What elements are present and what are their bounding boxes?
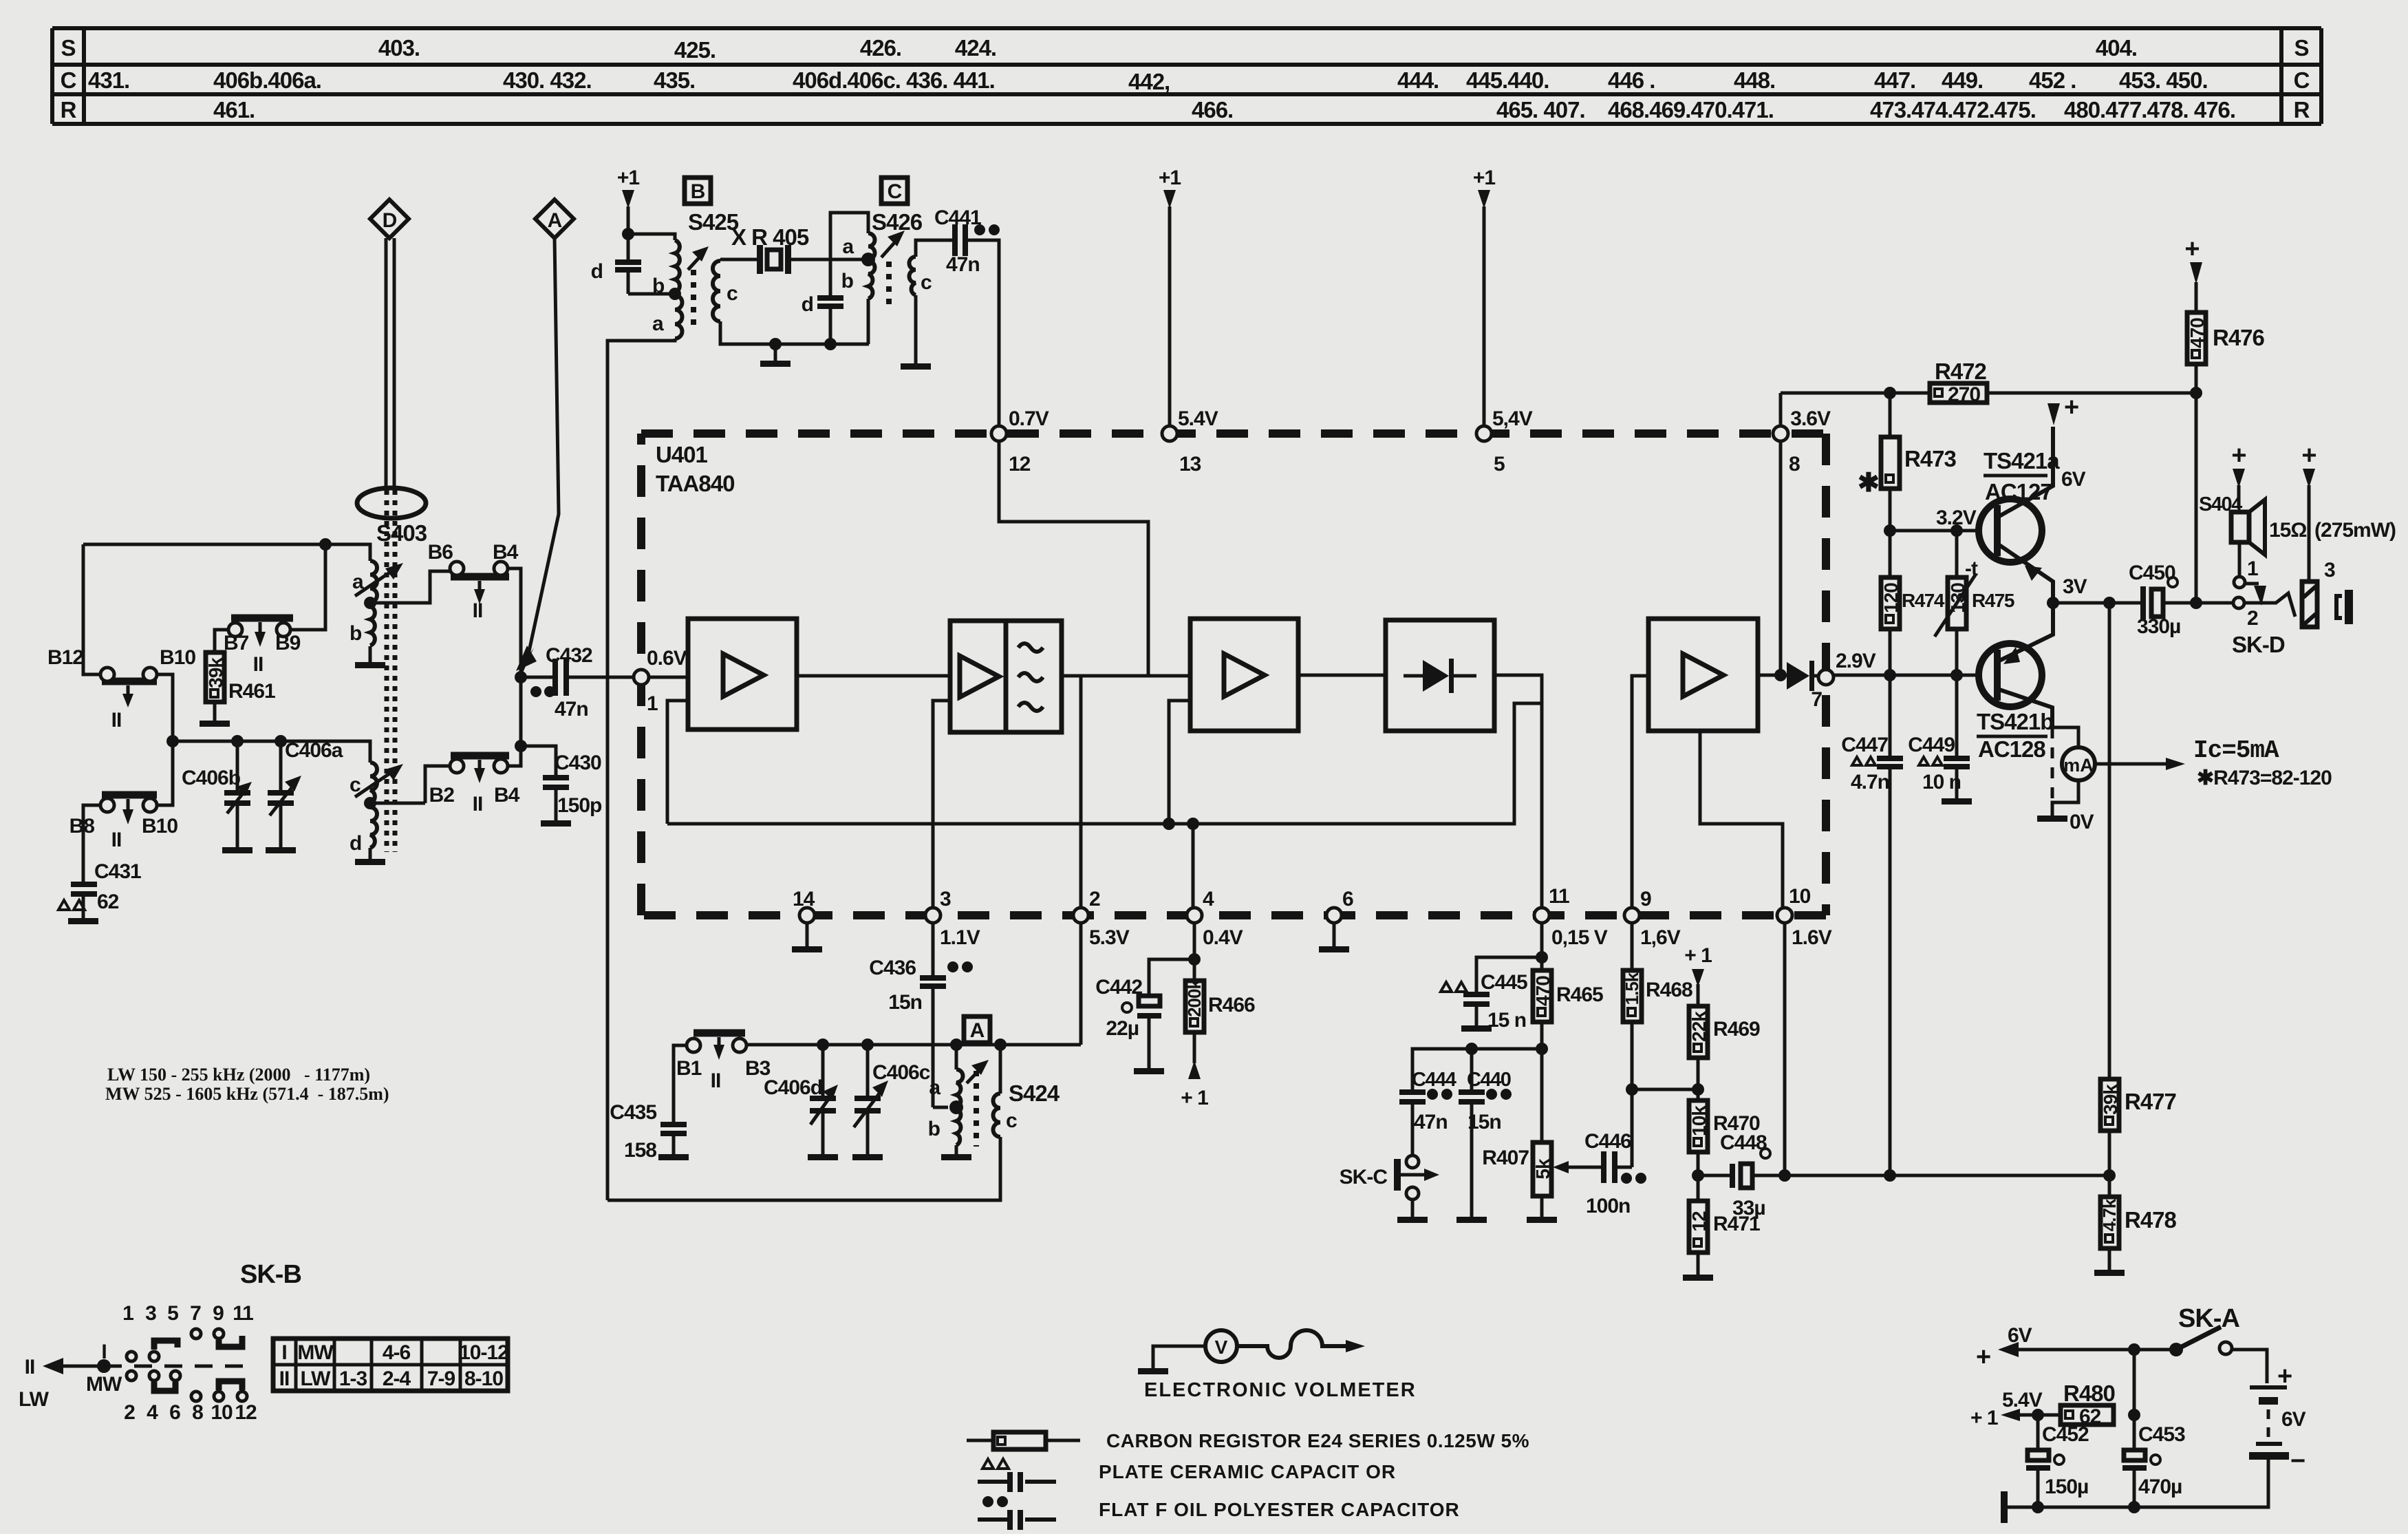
- resistor R469 22k: [1688, 1006, 1760, 1058]
- node: S424 a/b tap: [949, 1100, 963, 1114]
- svg-text:200k: 200k: [1184, 979, 1205, 1017]
- svg-text:+: +: [2184, 235, 2199, 264]
- svg-text:MW 525 - 1605 kHz (571.4 - 1: MW 525 - 1605 kHz (571.4 - 187.5m): [105, 1084, 389, 1104]
- svg-text:C406b: C406b: [182, 767, 241, 789]
- wire: C436 bottom to S424 tap: [933, 1106, 948, 1109]
- capacitor C449 10n (plate ceramic): [1908, 675, 1970, 798]
- pin 4 of U401: [1187, 888, 1243, 949]
- table row label S (right): [2294, 35, 2308, 61]
- pin 11 of U401: [1534, 885, 1608, 949]
- legend: carbon resistor symbol: [967, 1430, 1529, 1451]
- wire: S424 c bottom loop to left vertical: [608, 1137, 1000, 1200]
- amplifier block 5 (AF preamp): [1648, 619, 1758, 731]
- wire: pin4 external stub: [1193, 923, 1196, 981]
- svg-text:2: 2: [1089, 888, 1100, 910]
- trimmer capacitor d (S425): [591, 234, 641, 294]
- svg-text:15n: 15n: [888, 991, 922, 1014]
- wire: output line 3V node to C450: [2053, 575, 2140, 603]
- wire: B12 to top bus: [83, 544, 100, 674]
- wire: S426 top loop: [830, 213, 868, 295]
- wire: junction to divider chain: [1632, 1088, 1698, 1091]
- variable capacitor C406c: [854, 1038, 930, 1127]
- wire: feedback line to R477/R478 junction: [1785, 1174, 2109, 1178]
- svg-text:C440: C440: [1467, 1069, 1511, 1091]
- note: band coverage text: [105, 1065, 389, 1104]
- svg-text:LW: LW: [19, 1388, 50, 1411]
- wire: R477 riser from output node: [2108, 603, 2111, 1079]
- svg-text:15Ω: 15Ω: [2269, 519, 2306, 542]
- svg-text:3: 3: [2324, 559, 2335, 582]
- svg-text:SK-C: SK-C: [1340, 1166, 1388, 1189]
- resistor R474 120: [1880, 531, 1945, 675]
- svg-text:C448: C448: [1720, 1131, 1767, 1154]
- ground: R471: [1683, 1253, 1713, 1281]
- svg-text:C430: C430: [555, 752, 601, 774]
- ground: TS421b emitter 0V: [2037, 811, 2094, 833]
- svg-text:C445: C445: [1481, 971, 1527, 994]
- ferrite core dotted columns S403: [387, 490, 395, 852]
- svg-text:CARBON REGISTOR E24 SERIES: CARBON REGISTOR E24 SERIES 0.125W 5%: [1106, 1430, 1529, 1451]
- svg-text:47n: 47n: [946, 253, 980, 276]
- switch B2/B4 lower: [429, 756, 520, 816]
- pin 3 of U401: [925, 888, 980, 949]
- svg-text:A: A: [548, 209, 562, 232]
- capacitor C444 47n (foil): [1399, 1069, 1456, 1133]
- wire: block2 output bus to block3 input: [1062, 674, 1190, 678]
- svg-text:-t: -t: [1965, 557, 1978, 580]
- svg-text:4-6: 4-6: [383, 1341, 411, 1364]
- wire: S425 c bottom to common ground rail: [720, 321, 869, 344]
- wire: S425 winding a bottom to long left vertical: [608, 339, 675, 1200]
- svg-text:R480: R480: [2063, 1381, 2115, 1406]
- node: feedback rail / pin4 riser: [1187, 818, 1199, 830]
- adjustable core arrow S424: [967, 1060, 989, 1083]
- svg-text:480.477.478. 476.: 480.477.478. 476.: [2064, 97, 2235, 122]
- ground: S426 winding c: [901, 295, 931, 370]
- node: S403 a/b tap: [364, 597, 376, 609]
- ground: pin 14 stub: [792, 924, 822, 952]
- coil S425 winding b: [652, 240, 680, 297]
- coil S403 winding a: [352, 561, 377, 602]
- svg-text:425.: 425.: [674, 37, 716, 63]
- svg-text:0V: 0V: [2070, 811, 2094, 833]
- svg-text:b: b: [928, 1118, 940, 1140]
- svg-text:d: d: [350, 832, 361, 855]
- variable capacitor C406b: [182, 767, 252, 813]
- svg-text:+: +: [1976, 1343, 1990, 1372]
- svg-text:LW 150 - 255 kHz (2000 - 1: LW 150 - 255 kHz (2000 - 1177m): [107, 1065, 370, 1085]
- svg-text:II: II: [711, 1069, 721, 1092]
- svg-text:39k: 39k: [2100, 1084, 2121, 1115]
- svg-text:S403: S403: [376, 520, 427, 546]
- svg-text:c: c: [1006, 1109, 1017, 1132]
- resistor R476 470: [2186, 312, 2265, 393]
- table row S entries: [378, 35, 2137, 63]
- node: 3.6V label at pin 8: [1790, 407, 1831, 430]
- svg-text:120: 120: [1880, 583, 1902, 613]
- switch B8/B10: [69, 795, 178, 851]
- svg-text:5.3V: 5.3V: [1089, 926, 1130, 949]
- svg-text:+: +: [2301, 441, 2316, 470]
- electronic voltmeter symbol: [1138, 1330, 1417, 1401]
- svg-text:452 .: 452 .: [2029, 67, 2076, 93]
- node: d bottom on ground rail: [824, 338, 837, 350]
- node: junction top bus / B9 riser: [319, 538, 332, 551]
- svg-text:406b.406a.: 406b.406a.: [213, 67, 321, 93]
- svg-text:470: 470: [1532, 976, 1554, 1006]
- capacitor C445 15n (plate ceramic): [1441, 957, 1542, 1032]
- svg-text:R474: R474: [1902, 590, 1945, 611]
- capacitor C442 22u (electrolytic): [1095, 959, 1194, 1068]
- wire: d bottom to S425 tap: [628, 292, 675, 296]
- svg-text:2: 2: [2247, 607, 2258, 630]
- wire: C441 to pin 12 riser: [968, 240, 999, 427]
- wire: R472 supply rail: [1781, 392, 2196, 395]
- svg-text:1.5k: 1.5k: [1622, 972, 1642, 1005]
- svg-text:447.: 447.: [1874, 67, 1915, 93]
- coil S425 winding c (secondary): [713, 261, 738, 321]
- ground: S403 winding b: [355, 646, 385, 668]
- svg-text:AC128: AC128: [1978, 736, 2045, 762]
- svg-text:B: B: [691, 180, 705, 203]
- svg-text:4.7n: 4.7n: [1851, 771, 1889, 793]
- svg-text:442,: 442,: [1128, 69, 1170, 94]
- wire: pin9 external riser: [1631, 923, 1634, 970]
- ground: R478: [2094, 1248, 2125, 1276]
- ground: S403 winding d: [355, 848, 385, 865]
- svg-text:II: II: [279, 1367, 290, 1390]
- svg-text:C: C: [2294, 67, 2310, 93]
- svg-text:R465: R465: [1556, 983, 1603, 1006]
- coil S426 winding b: [841, 261, 875, 299]
- svg-text:1.6V: 1.6V: [1792, 926, 1832, 949]
- svg-text:445.440.: 445.440.: [1466, 67, 1549, 93]
- svg-text:270: 270: [1948, 383, 1980, 406]
- ground: chassis bar (battery return): [2001, 1491, 2008, 1523]
- capacitor C450 330u (electrolytic): [2129, 562, 2233, 638]
- svg-text:II: II: [25, 1356, 35, 1378]
- svg-text:R473: R473: [1904, 446, 1957, 471]
- svg-text:a: a: [842, 235, 854, 258]
- node: S426 a/b tap (XR405 connection): [861, 253, 875, 266]
- svg-text:a: a: [929, 1076, 940, 1099]
- adjustable core arrow S425: [688, 246, 709, 270]
- svg-text:V: V: [1215, 1336, 1228, 1358]
- svg-text:mA: mA: [2063, 755, 2094, 776]
- svg-text:10 n: 10 n: [1922, 771, 1961, 793]
- switch SK-B position table: [273, 1339, 508, 1391]
- top reference table frame: [52, 28, 2321, 124]
- svg-text:47n: 47n: [1414, 1111, 1448, 1133]
- ground: R461: [200, 702, 230, 727]
- svg-text:C449: C449: [1908, 734, 1955, 756]
- ground: C440: [1456, 1217, 1487, 1223]
- arrow: meter reading note: [2096, 736, 2332, 789]
- switch SK-A: [2169, 1304, 2267, 1383]
- node: +1 / trimmer d junction: [622, 228, 634, 240]
- svg-text:6V: 6V: [2061, 468, 2086, 491]
- svg-text:S424: S424: [1009, 1080, 1060, 1106]
- resistor R480 62: [2038, 1381, 2115, 1428]
- svg-text:403.: 403.: [378, 35, 420, 61]
- jack SK-D contact 1: [2234, 557, 2266, 606]
- ferrite core dots S426: [886, 262, 892, 306]
- wire: pin1 to block1 input: [649, 676, 688, 679]
- wire: B2 to S403 c/d tap: [425, 766, 450, 803]
- svg-text:II: II: [473, 599, 483, 622]
- transformer S425 label: [688, 209, 739, 235]
- amplifier block 2 (IF amp + filter): [950, 621, 1062, 732]
- svg-text:R: R: [61, 97, 77, 122]
- svg-text:12: 12: [235, 1401, 257, 1424]
- node: feedback rail / block3 stub: [1163, 818, 1175, 830]
- coil S424 winding a: [929, 1038, 963, 1107]
- svg-text:100n: 100n: [1586, 1195, 1630, 1217]
- switch B12/B10: [47, 646, 195, 732]
- pin 14 of U401: [793, 888, 815, 923]
- amplifier block 1 (RF amp): [688, 619, 797, 729]
- wire: S403 a/b tap to B6: [370, 571, 451, 603]
- svg-text:b: b: [652, 275, 665, 297]
- transistor Q2 TS421b AC128: [1977, 603, 2053, 762]
- svg-text:446 .: 446 .: [1608, 67, 1655, 93]
- wire: S425 top loop: [628, 234, 675, 240]
- wire: feedback rail (AGC line): [667, 703, 1542, 824]
- resistor R477 39k: [2100, 1079, 2176, 1197]
- wire: block5 lower stub to pin10: [1700, 731, 1783, 908]
- wire: R465 bottom to volume bus: [1540, 1022, 1544, 1142]
- svg-text:II: II: [111, 829, 122, 851]
- svg-text:SK-B: SK-B: [240, 1260, 301, 1289]
- svg-text:C450: C450: [2129, 562, 2175, 584]
- pin 10 of U401: [1777, 885, 1832, 949]
- transformer S426 label: [872, 209, 923, 235]
- node: pin8 riser joins diode anode: [1774, 669, 1787, 681]
- coil S424 winding b: [928, 1109, 961, 1145]
- svg-text:MW: MW: [86, 1373, 122, 1396]
- svg-text:b: b: [841, 270, 854, 292]
- wire: B8 to C431: [83, 805, 100, 882]
- adjustable core arrow S426: [881, 231, 905, 257]
- svg-text:15 n: 15 n: [1487, 1009, 1526, 1032]
- svg-text:9: 9: [213, 1302, 224, 1325]
- wire: TS421a base line: [1890, 507, 1981, 531]
- trimmer capacitor d (S426): [802, 293, 843, 344]
- wire: pin12 feed into block3 input bus: [999, 441, 1148, 676]
- capacitor C447 4.7n (plate ceramic): [1841, 675, 1903, 1175]
- svg-text:444.: 444.: [1397, 67, 1439, 93]
- ground: C431: [68, 897, 98, 924]
- svg-text:+: +: [2231, 441, 2246, 470]
- svg-text:6V: 6V: [2008, 1324, 2032, 1347]
- supply arrow 6V (battery rail output): [1976, 1324, 2176, 1372]
- svg-text:d: d: [591, 260, 603, 283]
- svg-text:R466: R466: [1208, 994, 1255, 1016]
- svg-text:(275mW): (275mW): [2314, 519, 2396, 542]
- svg-text:R477: R477: [2125, 1089, 2176, 1114]
- svg-text:B10: B10: [142, 815, 178, 838]
- wire: pin3 riser to block2 lower stub: [933, 701, 950, 908]
- supply +1 arrow output (5.4V rail): [1970, 1389, 2043, 1429]
- wire: S403 winding a top lead and top bus: [83, 544, 370, 561]
- node: R475 bottom on base line: [1950, 669, 1963, 681]
- ground: C430: [541, 790, 571, 827]
- amplifier block 3 (IF amp): [1190, 619, 1298, 731]
- svg-text:C444: C444: [1412, 1069, 1456, 1091]
- pin 9 of U401: [1624, 888, 1681, 949]
- svg-text:470: 470: [2186, 318, 2208, 348]
- svg-text:1,6V: 1,6V: [1640, 926, 1681, 949]
- svg-text:SK-A: SK-A: [2178, 1304, 2239, 1333]
- svg-text:47n: 47n: [555, 698, 588, 721]
- svg-text:150µ: 150µ: [2045, 1476, 2088, 1498]
- pin 13 of U401: [1162, 407, 1218, 476]
- svg-text:Ic=5mA: Ic=5mA: [2193, 736, 2279, 765]
- legend: flat foil polyester capacitor symbol: [978, 1496, 1460, 1530]
- svg-text:ELECTRONIC VOLMETER: ELECTRONIC VOLMETER: [1144, 1379, 1417, 1401]
- legend: plate ceramic capacitor symbol: [978, 1459, 1396, 1492]
- supply +1 arrow at pin 13: [1159, 167, 1181, 426]
- svg-text:473.474.472.475.: 473.474.472.475.: [1870, 97, 2036, 122]
- pin 7 of U401: [1811, 650, 1875, 711]
- coil S403 winding c: [350, 763, 377, 803]
- node A (oscillator test point box): [964, 1016, 990, 1043]
- potentiometer R407 5k (volume): [1482, 1142, 1554, 1217]
- svg-text:C406d: C406d: [764, 1076, 822, 1099]
- svg-text:4: 4: [1203, 888, 1214, 910]
- wire: R468 bottom to C446 node: [1631, 1022, 1634, 1167]
- svg-text:6: 6: [1342, 888, 1353, 910]
- jack SK-D tip contact 3: [2302, 559, 2335, 627]
- node: C432 input node: [515, 671, 527, 683]
- svg-text:2.9V: 2.9V: [1836, 650, 1876, 672]
- svg-text:466.: 466.: [1192, 97, 1233, 122]
- adjustable core arrow S403 lower: [355, 764, 403, 797]
- wire: B4 upper to C432 node: [508, 568, 521, 677]
- svg-text:C441: C441: [934, 206, 981, 229]
- resistor R472 270: [1930, 359, 1987, 406]
- wire: R476 rail down to output node: [2195, 393, 2198, 603]
- svg-text:10-12: 10-12: [459, 1341, 508, 1364]
- capacitor C446 100n (foil): [1584, 1130, 1646, 1217]
- svg-text:b: b: [350, 622, 362, 645]
- svg-text:U401: U401: [656, 442, 708, 467]
- wire: block5 output to diode: [1758, 674, 1787, 677]
- svg-text:10: 10: [1789, 885, 1811, 908]
- node: C452 on return rail: [2032, 1501, 2044, 1513]
- svg-text:SK-D: SK-D: [2232, 632, 2285, 657]
- ground: S425/S426 common rail: [760, 338, 791, 367]
- wire: A diamond stem with arrow to C432 node: [516, 238, 559, 677]
- svg-text:4: 4: [147, 1401, 158, 1424]
- svg-text:2-4: 2-4: [383, 1367, 411, 1390]
- svg-text:430. 432.: 430. 432.: [503, 67, 592, 93]
- svg-text:R475: R475: [1972, 590, 2014, 611]
- svg-text:B12: B12: [47, 646, 83, 669]
- node: C447 bottom junction: [1884, 1169, 1896, 1182]
- wire: riser to R480/C453: [2133, 1350, 2136, 1450]
- node: pin11/C445/R465 junction: [1536, 951, 1548, 963]
- svg-text:A: A: [970, 1019, 985, 1042]
- svg-text:C: C: [888, 180, 902, 203]
- svg-text:+1: +1: [1159, 167, 1181, 189]
- svg-text:TAA840: TAA840: [656, 471, 734, 496]
- svg-text:C406a: C406a: [285, 739, 343, 762]
- wire: pin11 external stub: [1540, 923, 1544, 970]
- svg-text:MW: MW: [297, 1341, 334, 1364]
- table row label S (left): [61, 35, 75, 61]
- node: SK-A to R480 riser: [2128, 1343, 2140, 1356]
- svg-text:8: 8: [1789, 453, 1800, 476]
- switch SK-C: [1340, 1155, 1439, 1200]
- node: C452 junction: [2032, 1409, 2044, 1421]
- node: R468/R469/R470 junction: [1626, 1083, 1638, 1096]
- node B (IF test point box): [685, 178, 711, 204]
- svg-text:1: 1: [647, 692, 658, 715]
- capacitor C435 158: [610, 1101, 687, 1162]
- transistor Q1 TS421a AC127: [1979, 427, 2060, 603]
- svg-text:R472: R472: [1935, 359, 1987, 384]
- svg-text:R476: R476: [2213, 325, 2265, 350]
- node: R465/C440/C444/R407 junction: [1536, 1043, 1548, 1055]
- resistor R468 1.5k: [1622, 970, 1692, 1022]
- svg-text:39k: 39k: [205, 657, 226, 688]
- transformer S424 label: [1009, 1080, 1060, 1106]
- resistor R475 130 (thermistor, -t): [1935, 524, 2014, 675]
- svg-text:C431: C431: [94, 860, 141, 883]
- svg-text:B6: B6: [428, 541, 453, 564]
- svg-text:R469: R469: [1713, 1018, 1760, 1041]
- svg-text:+: +: [2064, 393, 2078, 422]
- svg-text:R: R: [2294, 97, 2310, 122]
- table row label R (left): [61, 97, 77, 122]
- node: output 3V node: [2047, 597, 2059, 609]
- svg-text:I: I: [281, 1341, 286, 1364]
- wire: C444 to SK-C: [1411, 1105, 1415, 1155]
- jack SK-D contact 2 on output line: [2232, 593, 2295, 657]
- svg-text:0.7V: 0.7V: [1009, 407, 1049, 430]
- wire: pin4 riser to feedback rail: [1192, 824, 1195, 908]
- svg-text:7-9: 7-9: [427, 1367, 455, 1390]
- switch B7/B9: [224, 618, 301, 676]
- svg-text:426.: 426.: [860, 35, 901, 61]
- coil S425 winding a: [652, 295, 682, 339]
- op-amp U1: IC U401 TAA840 dashed outline: [641, 434, 1826, 915]
- ground: R407: [1527, 1217, 1557, 1223]
- pin 5 of U401: [1476, 407, 1533, 476]
- wire: B10 pair to lower bus junction: [157, 674, 173, 805]
- svg-text:C432: C432: [546, 644, 592, 667]
- adjustable core arrow S403 upper: [355, 563, 403, 596]
- svg-text:TS421b: TS421b: [1977, 709, 2053, 734]
- svg-text:PLATE CERAMIC CAPACIT OR: PLATE CERAMIC CAPACIT OR: [1099, 1461, 1396, 1482]
- wire: volume bus left to C444: [1412, 1049, 1542, 1089]
- wire: B1 to C435: [674, 1045, 687, 1122]
- node: C448/pin10 junction: [1778, 1169, 1791, 1182]
- svg-text:C406c: C406c: [872, 1061, 930, 1084]
- wire: R470 to R471 with C448 tap: [1692, 1152, 1704, 1201]
- svg-text:4.7k: 4.7k: [2099, 1198, 2120, 1231]
- resistor R466 200k: [1184, 979, 1255, 1032]
- svg-text:6: 6: [169, 1401, 180, 1424]
- wire: block1 output to block2 input: [797, 674, 950, 678]
- coil S424 winding c (secondary): [993, 1038, 1018, 1137]
- wire: B7 to R461: [215, 630, 228, 652]
- svg-text:424.: 424.: [955, 35, 996, 61]
- pin 2 of U401: [1073, 888, 1130, 949]
- capacitor C441 47n (foil): [934, 206, 1000, 276]
- transformer S403 label: [376, 520, 427, 546]
